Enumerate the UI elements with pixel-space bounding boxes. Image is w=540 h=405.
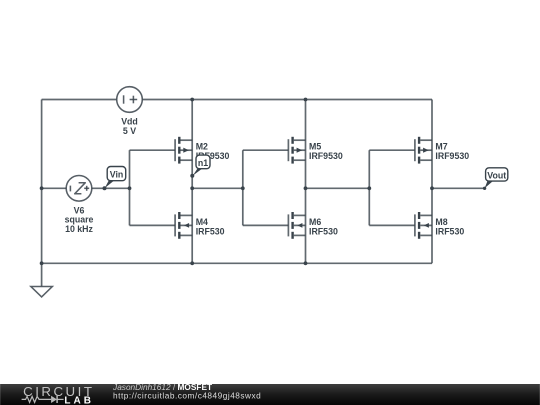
svg-text:M5: M5 [309, 142, 321, 152]
junction M2 drain on top rail [190, 98, 194, 102]
wire top rail right segment (Vdd- across to M7 drain) [142, 99, 432, 101]
svg-text:M7: M7 [435, 142, 447, 152]
voltage source Vdd (DC 5 V) [117, 87, 143, 113]
svg-text:http://circuitlab.com/c4849gj4: http://circuitlab.com/c4849gj48swxd [113, 390, 261, 400]
transistor M8 (NMOS) [369, 212, 432, 239]
wire stage2 output to stage3 gate tee [306, 187, 370, 189]
ground [31, 287, 52, 297]
wire stage2 gate tee vertical [242, 150, 244, 225]
node n1 flag [190, 155, 210, 178]
wire stage1 gate tee vertical [129, 150, 131, 225]
svg-text:n1: n1 [198, 158, 208, 168]
junction M6 source on bottom rail [304, 261, 308, 265]
wire stage2 output vertical (M5, M6) [305, 100, 307, 264]
svg-text:IRF530: IRF530 [196, 226, 225, 236]
junction output stage3 (Vout node) [430, 186, 434, 190]
wire node n1 to stage2 gate tee [192, 187, 243, 189]
junction V6-left rail [40, 186, 44, 190]
svg-text:Vin: Vin [110, 170, 124, 180]
junction stage3 gate tee [367, 186, 371, 190]
svg-text:M4: M4 [196, 217, 208, 227]
junction M5 drain on top rail [304, 98, 308, 102]
svg-text:M2: M2 [196, 142, 208, 152]
transistor M7 (PMOS) [369, 137, 432, 164]
svg-text:IRF530: IRF530 [309, 226, 338, 236]
transistor M2 (PMOS) [130, 137, 193, 164]
junction stage1 gate tee [128, 186, 132, 190]
wire bottom rail [42, 262, 432, 264]
node Vin flag [103, 167, 126, 191]
wire ground stub [41, 263, 43, 286]
svg-text:LAB: LAB [64, 395, 94, 405]
transistor M5 (PMOS) [243, 137, 306, 164]
wire left rail [41, 100, 43, 264]
CircuitLab logo waveform (resistor + diode) [22, 395, 64, 402]
transistor M4 (NMOS) [130, 212, 193, 239]
transistor M6 (NMOS) [243, 212, 306, 239]
junction stage2 gate tee [241, 186, 245, 190]
wire stage3 output vertical (M7, M8) [431, 100, 433, 264]
wire V6 right lead to node Vin [92, 187, 130, 189]
wire stage1 output vertical (M2 drain/source, M4) [191, 100, 193, 264]
junction ground tap on bottom rail [40, 261, 44, 265]
wire stage3 gate tee vertical [368, 150, 370, 225]
junction node n1 output stage1 [190, 186, 194, 190]
junction M4 source on bottom rail [190, 261, 194, 265]
wire V6 left lead to rail [42, 187, 67, 189]
svg-text:IRF9530: IRF9530 [309, 151, 343, 161]
svg-text:IRF9530: IRF9530 [435, 151, 469, 161]
svg-text:10 kHz: 10 kHz [65, 224, 93, 234]
svg-text:5 V: 5 V [123, 126, 136, 136]
svg-text:M6: M6 [309, 217, 321, 227]
junction output stage2 [304, 186, 308, 190]
svg-text:Vout: Vout [487, 171, 506, 181]
node Vout flag [483, 168, 508, 190]
wire stage3 output to Vout [432, 187, 485, 189]
svg-text:Vdd: Vdd [121, 116, 138, 126]
svg-text:IRF530: IRF530 [435, 226, 464, 236]
svg-text:M8: M8 [435, 217, 447, 227]
voltage source V6 (square 10 kHz) [66, 176, 92, 202]
wire top rail left segment (Vdd+ to left rail) [42, 99, 117, 101]
footer bar [0, 384, 540, 405]
